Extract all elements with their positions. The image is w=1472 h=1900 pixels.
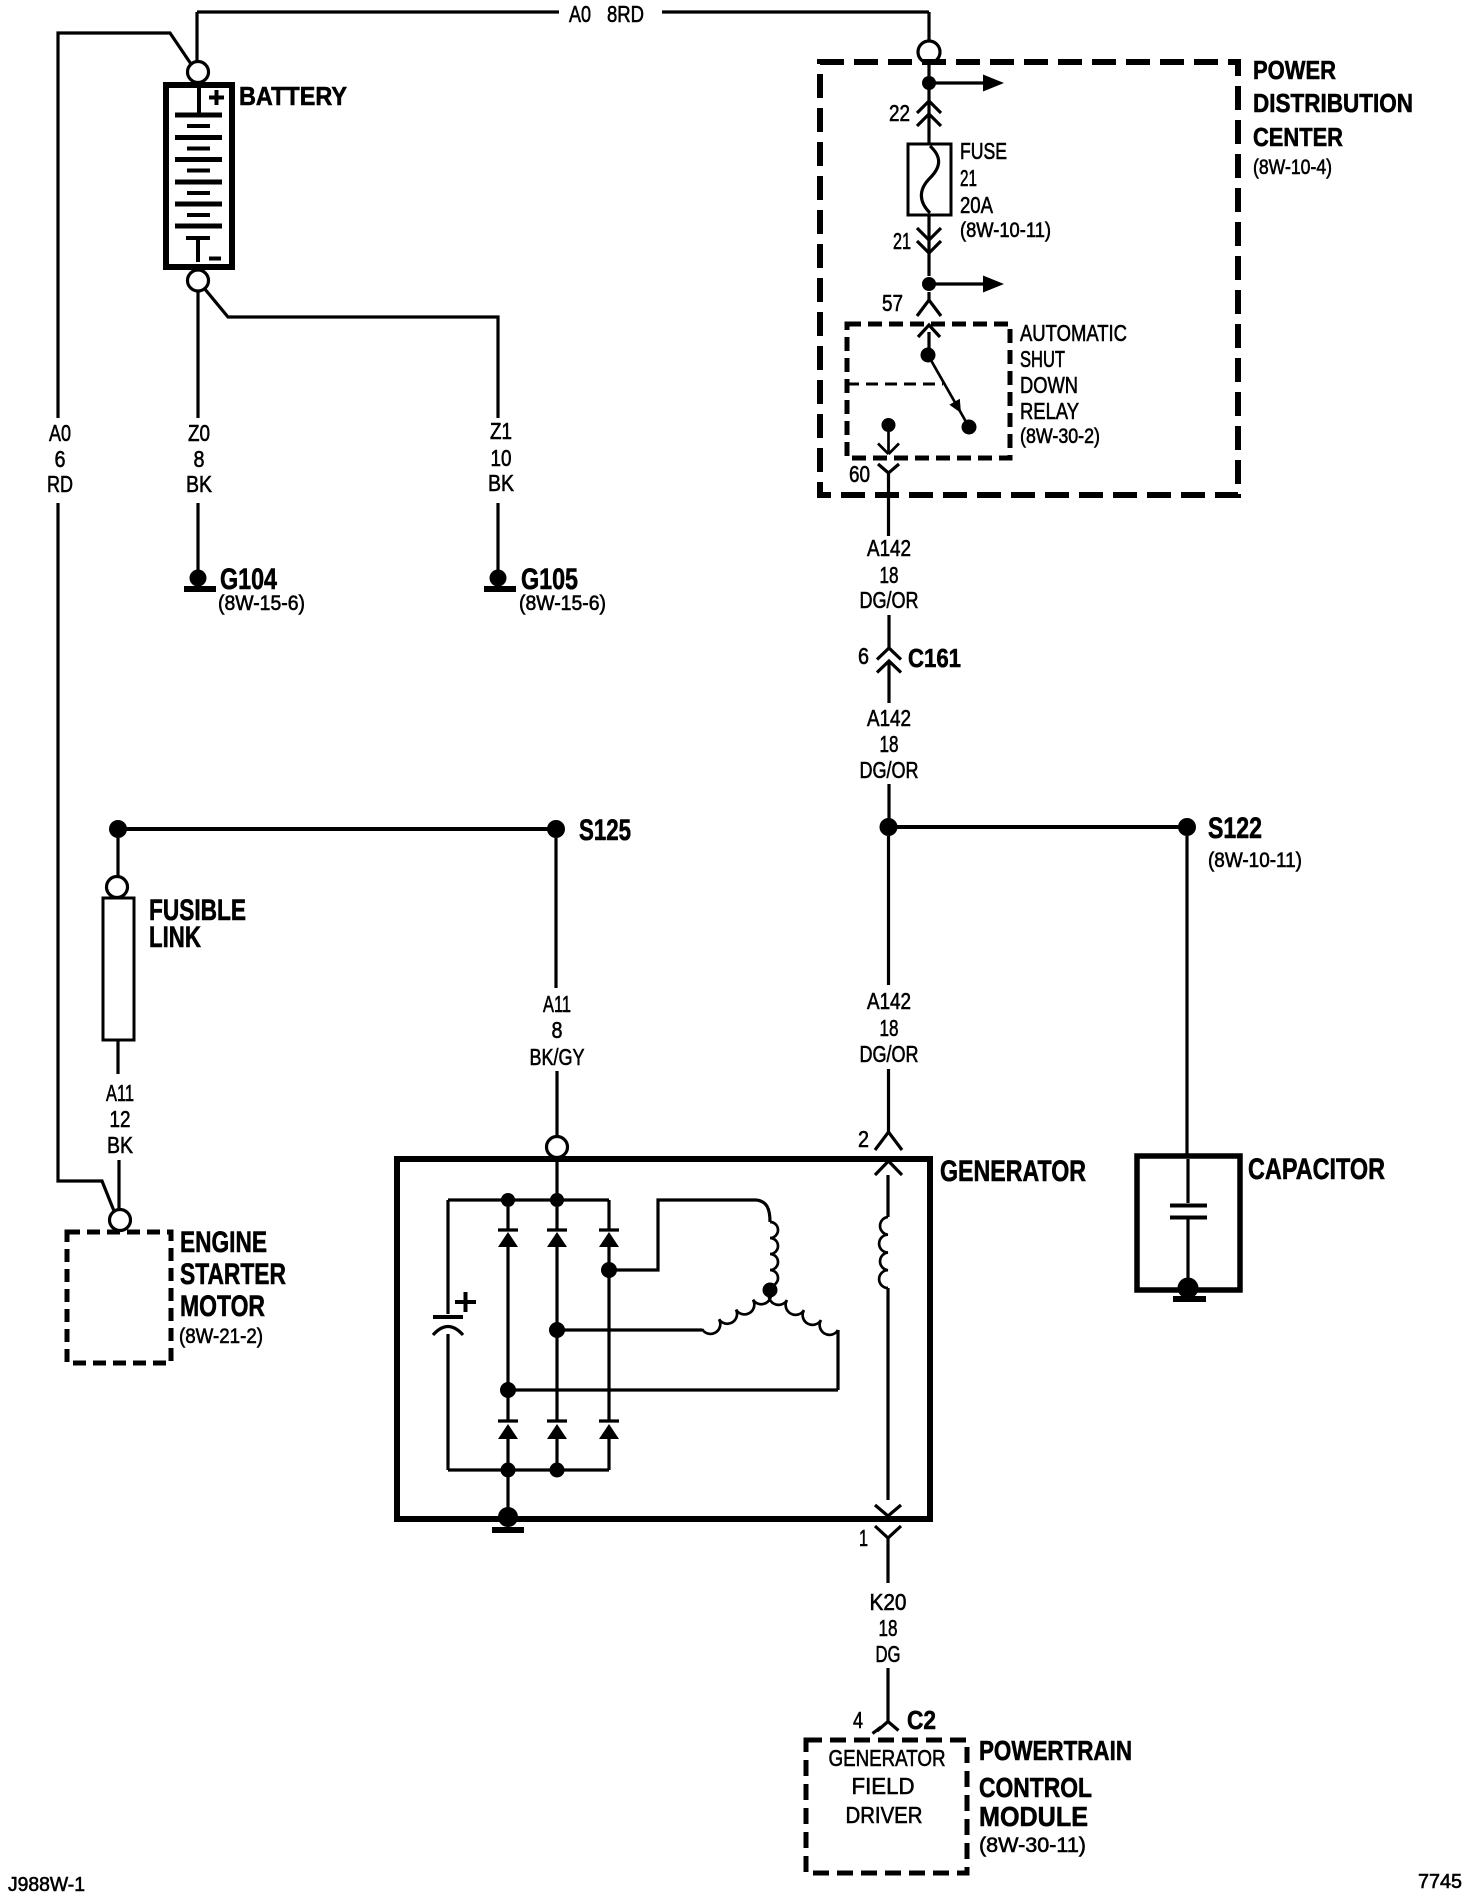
svg-text:AUTOMATIC: AUTOMATIC — [1020, 320, 1127, 346]
connector 57 chevron — [917, 300, 941, 316]
junction dot — [550, 1463, 565, 1478]
svg-text:BK/GY: BK/GY — [530, 1044, 585, 1070]
wire label A0 8RD — [569, 1, 644, 27]
wire to fusible link — [116, 838, 119, 876]
svg-text:57: 57 — [882, 290, 903, 316]
wire to S122 — [889, 825, 1188, 829]
relay output dot pin 60 — [882, 418, 896, 432]
relay label — [1020, 320, 1127, 448]
relay contact dot — [962, 420, 977, 435]
arrow right — [929, 276, 1004, 293]
stator winding phase C — [508, 1290, 838, 1390]
junction dot — [550, 1193, 564, 1207]
capacitor ground — [1173, 1278, 1206, 1303]
svg-text:20A: 20A — [960, 192, 994, 218]
connector below generator — [875, 1526, 901, 1583]
wire label Z0 8 BK — [186, 420, 213, 497]
node S122 junction dot — [880, 818, 898, 836]
svg-text:DG/OR: DG/OR — [860, 1041, 919, 1067]
relay switch arm — [928, 355, 969, 427]
stator winding phase B — [557, 1290, 771, 1334]
ground G105 — [484, 570, 516, 593]
svg-text:(8W-30-11): (8W-30-11) — [979, 1834, 1086, 1857]
svg-text:ENGINE: ENGINE — [180, 1226, 267, 1259]
fusible link — [103, 898, 134, 1040]
wire label A0 6 RD — [47, 420, 73, 497]
wire label A11 12 BK — [106, 1080, 134, 1158]
wire below fusible link — [116, 1040, 119, 1074]
wire — [887, 615, 890, 703]
svg-text:1: 1 — [859, 1525, 868, 1551]
svg-text:BK: BK — [186, 471, 213, 497]
generator bottom rail — [448, 1468, 609, 1471]
svg-text:GENERATOR: GENERATOR — [829, 1745, 946, 1771]
svg-text:6: 6 — [55, 446, 66, 472]
svg-text:A142: A142 — [867, 988, 911, 1014]
svg-text:8: 8 — [194, 446, 205, 472]
svg-text:GENERATOR: GENERATOR — [940, 1155, 1086, 1188]
svg-text:(8W-10-4): (8W-10-4) — [1253, 156, 1332, 179]
junction dot phase A — [601, 1262, 617, 1278]
wire S122 to capacitor — [1185, 836, 1188, 1156]
svg-text:18: 18 — [879, 1615, 898, 1641]
wire label A11 8 BK/GY — [530, 991, 585, 1070]
node S125 junction dot — [109, 820, 127, 838]
power distribution center box — [820, 62, 1238, 495]
generator top rail — [448, 1198, 609, 1201]
capacitor element — [1170, 1159, 1207, 1280]
svg-text:(8W-30-2): (8W-30-2) — [1020, 425, 1100, 448]
diode D1 (upper left) — [498, 1207, 518, 1383]
connector 60 chevron — [878, 464, 899, 536]
node S125 dot — [547, 820, 565, 838]
wire below fuse — [927, 215, 930, 276]
connector C161 chevrons — [877, 648, 901, 673]
svg-text:(8W-21-2): (8W-21-2) — [179, 1325, 263, 1348]
arrow feed right — [929, 75, 1004, 92]
stator winding phase A — [609, 1200, 778, 1286]
svg-text:Z1: Z1 — [490, 418, 512, 444]
fuse label — [960, 138, 1051, 242]
diode D3 (upper right) — [599, 1200, 619, 1263]
svg-text:DRIVER: DRIVER — [846, 1802, 923, 1828]
PDC label — [1253, 55, 1413, 179]
battery — [166, 85, 232, 267]
svg-text:DOWN: DOWN — [1020, 372, 1078, 398]
PCM label — [979, 1735, 1132, 1857]
PDC terminal circle — [918, 41, 940, 63]
internal capacitor — [433, 1317, 463, 1470]
svg-text:A0: A0 — [49, 420, 71, 446]
generator internal ground — [492, 1470, 524, 1533]
svg-text:SHUT: SHUT — [1020, 346, 1065, 372]
svg-text:22: 22 — [889, 100, 910, 126]
generator box — [397, 1159, 930, 1519]
junction dot — [501, 1193, 515, 1207]
svg-text:RELAY: RELAY — [1020, 398, 1079, 424]
wire S125 to generator B+ — [556, 838, 557, 1136]
svg-text:CONTROL: CONTROL — [979, 1772, 1092, 1803]
ground G104 — [184, 570, 216, 593]
svg-text:MOTOR: MOTOR — [180, 1290, 265, 1323]
wire A0 left branch — [58, 33, 191, 1211]
wire to relay — [927, 292, 930, 348]
svg-text:12: 12 — [110, 1106, 131, 1132]
wire Z0 — [196, 291, 199, 571]
engine starter motor box — [67, 1232, 171, 1363]
fusible link terminal circle — [107, 877, 128, 898]
wire PDC feed — [927, 63, 930, 144]
svg-text:21: 21 — [960, 165, 977, 191]
wire to PCM — [886, 1668, 889, 1721]
node S122 dot — [1178, 818, 1196, 836]
svg-text:S122: S122 — [1208, 812, 1262, 845]
svg-text:POWER: POWER — [1253, 55, 1336, 85]
svg-text:S125: S125 — [579, 814, 631, 847]
svg-text:A0: A0 — [569, 1, 591, 27]
connector 22 chevrons — [917, 101, 941, 126]
svg-text:Z0: Z0 — [188, 420, 210, 446]
svg-text:BATTERY: BATTERY — [239, 81, 347, 111]
svg-text:A142: A142 — [867, 535, 911, 561]
svg-text:FIELD: FIELD — [852, 1773, 915, 1799]
ground label G104 — [218, 563, 305, 615]
junction dot phase B — [549, 1322, 565, 1338]
diode D5 (lower middle) — [547, 1337, 567, 1470]
svg-text:(8W-10-11): (8W-10-11) — [1208, 849, 1302, 872]
svg-text:8: 8 — [552, 1017, 563, 1043]
wire Z1 — [204, 288, 498, 571]
svg-text:2: 2 — [858, 1126, 869, 1152]
junction dot — [501, 1463, 516, 1478]
svg-text:DG/OR: DG/OR — [860, 587, 919, 613]
wire label K20 18 DG — [870, 1589, 907, 1667]
svg-text:60: 60 — [849, 461, 870, 487]
relay common dot — [921, 348, 936, 363]
field pin 1 chevron — [875, 1505, 901, 1516]
svg-text:BK: BK — [107, 1132, 134, 1158]
svg-text:STARTER: STARTER — [180, 1258, 286, 1291]
svg-text:A11: A11 — [106, 1080, 134, 1106]
svg-text:FUSE: FUSE — [960, 138, 1007, 164]
svg-text:18: 18 — [880, 1015, 899, 1041]
relay pin 57 inner chevron — [918, 325, 940, 337]
svg-text:(8W-15-6): (8W-15-6) — [519, 592, 606, 615]
svg-text:J988W-1: J988W-1 — [8, 1874, 85, 1896]
internal + sign — [455, 1292, 476, 1312]
svg-text:18: 18 — [880, 731, 899, 757]
battery negative terminal — [188, 270, 209, 291]
svg-text:CENTER: CENTER — [1253, 122, 1343, 152]
battery positive terminal — [188, 62, 209, 83]
diode D6 (lower right) — [599, 1277, 619, 1470]
wire label Z1 10 BK — [488, 418, 515, 496]
junction dot — [922, 76, 936, 90]
svg-text:18: 18 — [880, 562, 899, 588]
svg-text:10: 10 — [491, 445, 512, 471]
svg-text:POWERTRAIN: POWERTRAIN — [979, 1735, 1132, 1766]
ASD relay box — [847, 324, 1010, 458]
diode D2 (upper middle) — [547, 1207, 567, 1323]
powertrain control module box — [806, 1740, 967, 1873]
svg-text:(8W-15-6): (8W-15-6) — [218, 592, 305, 615]
generator field driver label — [829, 1745, 946, 1828]
wire A0 8RD top horizontal — [197, 12, 929, 61]
starter label — [179, 1226, 286, 1348]
wire label A142 18 DG/OR (2) — [860, 705, 919, 783]
svg-text:(8W-10-11): (8W-10-11) — [960, 219, 1051, 242]
svg-text:CAPACITOR: CAPACITOR — [1248, 1153, 1385, 1186]
svg-text:6: 6 — [858, 643, 869, 669]
wire to starter — [117, 1160, 120, 1209]
svg-text:C161: C161 — [908, 643, 961, 673]
capacitor box — [1137, 1156, 1240, 1290]
wire from S122 node down — [887, 836, 890, 1132]
connector 21 chevrons — [917, 228, 941, 253]
wire S125 horizontal — [118, 827, 548, 831]
diode D4 (lower left) — [498, 1390, 518, 1470]
relay inner dashed line — [847, 383, 943, 386]
node label S122 — [1208, 812, 1302, 872]
ground label G105 — [519, 563, 606, 615]
svg-text:8RD: 8RD — [607, 1, 644, 27]
svg-text:K20: K20 — [870, 1589, 907, 1615]
wire — [887, 784, 890, 819]
starter terminal circle — [110, 1210, 131, 1231]
svg-text:A142: A142 — [867, 705, 911, 731]
svg-text:DISTRIBUTION: DISTRIBUTION — [1253, 88, 1413, 118]
field winding — [879, 1175, 888, 1500]
svg-text:RD: RD — [47, 471, 73, 497]
connector C2 chevron — [873, 1722, 899, 1734]
svg-text:LINK: LINK — [149, 921, 201, 954]
svg-text:7745: 7745 — [1418, 1871, 1462, 1893]
svg-text:DG: DG — [876, 1641, 901, 1667]
svg-text:BK: BK — [488, 470, 515, 496]
svg-text:DG/OR: DG/OR — [860, 757, 919, 783]
svg-text:21: 21 — [893, 228, 911, 254]
junction dot — [922, 277, 936, 291]
generator internal capacitor branch — [446, 1200, 449, 1314]
junction dot — [500, 1382, 516, 1398]
stator centre junction dot — [763, 1283, 778, 1298]
svg-text:4: 4 — [853, 1707, 863, 1733]
generator B+ terminal circle — [547, 1137, 568, 1158]
wire B+ into generator — [555, 1158, 558, 1200]
wire label A142 18 DG/OR (3) — [860, 988, 919, 1067]
svg-text:MODULE: MODULE — [979, 1801, 1088, 1832]
connector pin 2 chevrons — [875, 1132, 902, 1175]
fusible link label — [149, 894, 246, 954]
wire label A142 18 DG/OR (1) — [860, 535, 919, 613]
fuse 21 — [908, 144, 951, 215]
relay output arrow — [878, 432, 899, 454]
svg-text:C2: C2 — [907, 1705, 936, 1735]
svg-text:A11: A11 — [543, 991, 571, 1017]
